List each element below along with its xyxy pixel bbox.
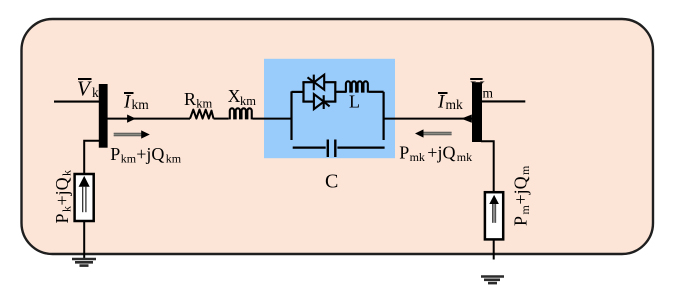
wire: TCSC to right bus [384,118,472,120]
svg-text:P: P [399,143,409,163]
svg-text:+jQ: +jQ [427,143,455,163]
svg-text:+jQ: +jQ [136,144,164,164]
label P_km+jQ_km [110,144,182,166]
ground (right) [481,277,504,284]
wire: load to ground (right) [493,239,495,259]
label I_mk (bar over I) [437,92,463,113]
svg-text:km: km [121,152,137,166]
capacitor C branch: left lead [293,147,326,149]
label P_mk+jQ_mk [399,143,472,165]
svg-text:km: km [196,97,212,111]
gray power-flow arrow P_km [114,130,150,138]
ground (left) [72,259,96,266]
capacitor C branch: right lead [337,147,384,149]
svg-text:L: L [349,92,360,112]
load P_k box [75,174,94,221]
resistor R_km (zigzag) [190,110,214,119]
label P_m+jQ_m (rotated) [511,165,533,226]
thyristor T1 (points left, on top wire) [308,75,325,91]
label R_km [184,89,213,111]
svg-text:mk: mk [446,97,464,112]
bus bar Vm [472,82,482,142]
thyristor block frame [302,82,336,101]
load P_m box [485,192,503,239]
wire: right bus drop (step) [481,141,494,192]
current arrow I_mk (left) [461,115,472,123]
current arrow I_km (right) [127,115,136,123]
node: left TCSC vertical [290,91,292,140]
svg-text:P: P [511,216,531,226]
inductor L (coil) [346,81,368,92]
svg-text:k: k [92,85,99,100]
label X_km [228,86,256,108]
svg-text:R: R [184,89,196,109]
wire: load to ground (left) [83,221,85,259]
svg-text:C: C [325,171,338,193]
wire: left network stub [54,101,99,103]
svg-text:X: X [228,86,241,106]
svg-text:k: k [60,170,74,176]
svg-text:mk: mk [457,150,472,164]
svg-text:km: km [132,97,150,112]
bus bar Vk [99,84,108,148]
gray power-flow arrow P_mk [415,129,452,137]
svg-text:m: m [483,86,494,101]
node: right TCSC vertical [383,92,385,140]
wire: km line from bus to resistor [107,118,190,120]
svg-text:+jQ: +jQ [52,177,72,205]
svg-text:k: k [60,206,74,212]
svg-text:km: km [166,152,182,166]
thyristor T2 (points right, on bottom wire) [314,94,330,109]
capacitor C plates [328,140,336,158]
wire: right network stub [482,100,525,102]
svg-text:+jQ: +jQ [511,176,531,204]
wire: block to inductor L [335,91,346,93]
wire: left bus drop (step) [84,141,99,174]
TCSC module blue box [264,59,395,158]
label I_km (bar over I) [123,92,149,113]
wire between R and X [214,118,229,120]
wire: L to right vertical [369,91,384,93]
inductor X_km (coil) [230,108,252,119]
svg-text:P: P [52,213,72,223]
svg-text:m: m [518,205,532,215]
svg-text:P: P [110,144,120,164]
label P_k+jQ_k (rotated) [52,170,74,224]
svg-text:km: km [240,94,256,108]
label V_m (bar over V, mostly hidden behind bus) [470,77,485,101]
wire into TCSC [253,118,292,120]
wire: lead to thyristor block [292,91,304,93]
outer rounded enclosure [22,19,654,254]
svg-text:m: m [518,165,532,175]
label V_k (bar over V) [77,77,99,101]
svg-text:mk: mk [410,150,425,164]
svg-text:V: V [77,77,92,101]
